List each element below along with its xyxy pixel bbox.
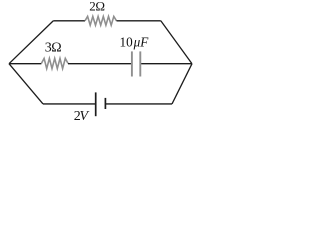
- wire: capacitor C1 to right node: [141, 63, 192, 65]
- resistor R2 (3 ohm) zigzag: [41, 58, 68, 68]
- capacitor C1 right plate: [139, 51, 141, 76]
- wire: top-right corner to right node: [161, 21, 192, 64]
- wire: left node to top-left corner: [9, 21, 53, 64]
- svg-text:2Ω: 2Ω: [89, 0, 105, 14]
- wire: bottom-left corner to battery B1: [43, 103, 96, 105]
- svg-text:2V: 2V: [74, 109, 90, 124]
- wire: resistor R1 to top-right corner: [117, 20, 161, 22]
- svg-text:10μF: 10μF: [120, 35, 150, 50]
- resistor R1 (2 ohm) zigzag: [85, 16, 117, 25]
- wire: left node to bottom-left corner: [9, 64, 43, 104]
- wire: left node to resistor R2: [9, 63, 41, 65]
- svg-text:3Ω: 3Ω: [45, 41, 62, 56]
- battery B1 long plate: [95, 92, 97, 116]
- wire: battery B1 to bottom-right corner: [105, 103, 172, 105]
- wire: bottom-right corner to right node: [172, 64, 192, 104]
- battery B1 short plate: [104, 98, 106, 109]
- capacitor C1 left plate: [131, 51, 133, 76]
- wire: resistor R2 to capacitor C1: [68, 63, 131, 65]
- wire: top-left lead to resistor R1: [53, 20, 85, 22]
